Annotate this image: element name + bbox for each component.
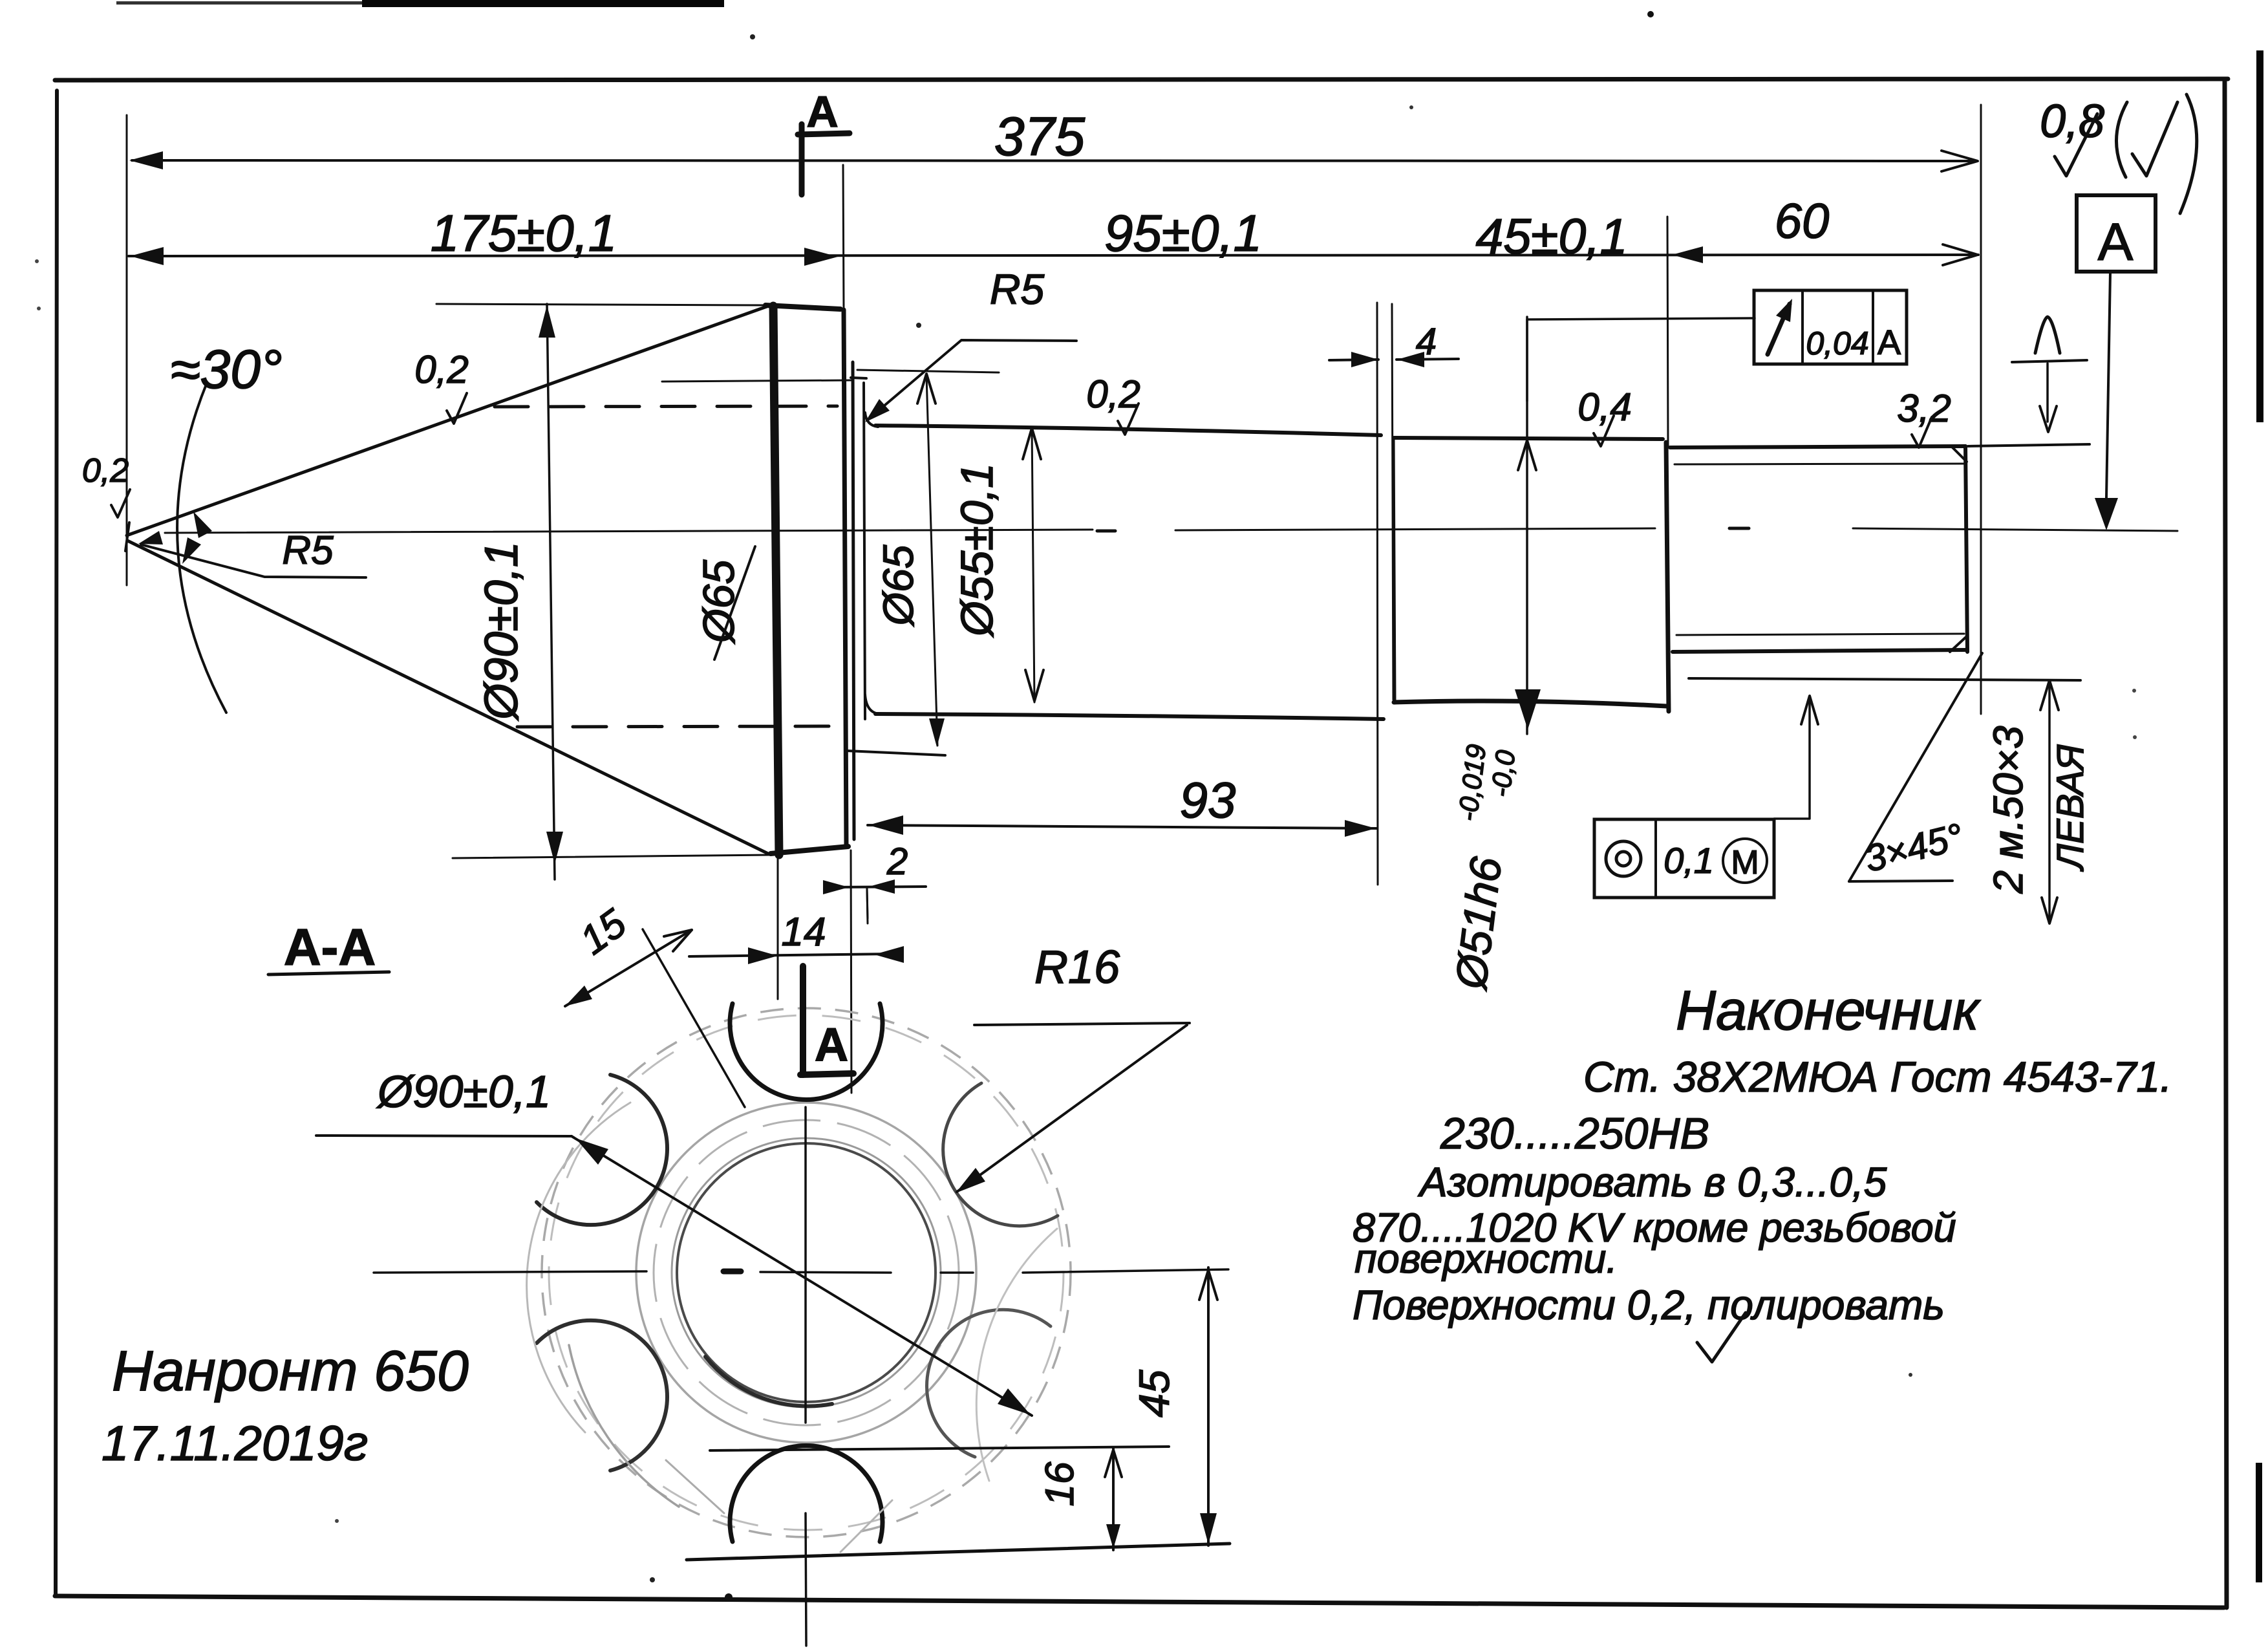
inner circle dark xyxy=(677,1143,936,1402)
pencil radial2 xyxy=(840,1500,892,1552)
runout symbol arrow xyxy=(1768,304,1790,354)
scan artifact top edge thin xyxy=(116,1,362,5)
flange top edge xyxy=(765,305,840,309)
drawing frame border top xyxy=(55,79,2228,80)
extension line flange left for 14 xyxy=(777,857,779,999)
svg-text:0,2: 0,2 xyxy=(414,348,468,391)
o51 relief groove line xyxy=(1392,304,1393,700)
dim o51 upper arrow xyxy=(1518,440,1536,470)
hidden line dashed upper xyxy=(495,406,837,407)
scan speck xyxy=(750,34,755,39)
AA dim o90 arrow lower xyxy=(998,1388,1031,1415)
dim o65 arrow down xyxy=(929,718,945,747)
dim 16 ref line xyxy=(710,1447,1169,1450)
AA bottom tangent line xyxy=(687,1544,1230,1560)
dim o90 arrow down xyxy=(546,832,563,864)
section mark A bottom line xyxy=(800,966,806,1075)
drawing frame border right xyxy=(2225,80,2227,1608)
roughness paren right xyxy=(2180,94,2197,213)
svg-text:45: 45 xyxy=(1130,1370,1178,1417)
dim 45AA arrow top xyxy=(1199,1270,1217,1300)
dim 375 right arrow xyxy=(1942,151,1978,171)
dim 45AA arrow bottom xyxy=(1200,1513,1217,1544)
datum frame box xyxy=(2077,195,2156,272)
AA horizontal centerline xyxy=(374,1271,647,1273)
outer circle o90 faint xyxy=(542,1008,1071,1537)
thread dim line xyxy=(2048,680,2051,923)
svg-text:поверхности.: поверхности. xyxy=(1354,1236,1618,1282)
thread dim arrow top xyxy=(2040,680,2059,710)
step bottom edge extension xyxy=(847,751,945,755)
svg-text:Нанронт 650: Нанронт 650 xyxy=(112,1339,469,1403)
R5 left leader xyxy=(141,544,366,577)
roughness 0,8 check xyxy=(2055,114,2097,176)
svg-text:ЛЕВАЯ: ЛЕВАЯ xyxy=(2049,744,2091,872)
pencil arc texture1 xyxy=(527,1103,630,1432)
chamfer underline xyxy=(1849,881,1952,881)
dim 15 extension xyxy=(643,929,745,1107)
svg-text:R16: R16 xyxy=(1034,942,1120,993)
notch lower-right R16 xyxy=(926,1309,1051,1457)
svg-text:2: 2 xyxy=(886,841,908,883)
step face line xyxy=(864,383,865,719)
dim o65 arrow up xyxy=(917,374,936,404)
svg-text:16: 16 xyxy=(1038,1461,1082,1506)
svg-text:0,4: 0,4 xyxy=(1578,385,1631,429)
right end extension line xyxy=(1980,105,1982,714)
hidden line dashed lower xyxy=(517,726,837,727)
cone bottom edge xyxy=(127,541,769,854)
notch top R16 xyxy=(730,1004,883,1099)
svg-text:95±0,1: 95±0,1 xyxy=(1104,204,1262,262)
thread end face xyxy=(1965,446,1967,652)
shaft o55 top edge xyxy=(875,426,1381,435)
extension line step face for 93 xyxy=(867,889,868,923)
svg-text:R5: R5 xyxy=(990,265,1045,313)
svg-text:14: 14 xyxy=(782,910,826,954)
pencil radial1 xyxy=(666,1460,724,1513)
outer circle o90 faint2 xyxy=(549,1015,1064,1530)
tolerance frame box xyxy=(1754,290,1907,364)
dim 93 left arrow xyxy=(868,815,903,835)
thread dim extension bottom xyxy=(1689,678,2081,680)
dim 14 arrow left xyxy=(874,946,904,963)
dim 14 arrow right xyxy=(748,947,778,964)
middle faint circle2 xyxy=(654,1120,959,1425)
dim chain line xyxy=(129,255,1978,256)
extension line for dim2 right xyxy=(867,889,868,918)
dim o51 line xyxy=(1526,317,1528,734)
tolerance frame divider1 xyxy=(1801,290,1804,364)
notch upper-right R16 xyxy=(943,1083,1058,1226)
svg-text:17.11.2019г: 17.11.2019г xyxy=(102,1416,368,1471)
thread chamfer bottom xyxy=(1950,636,1967,652)
concentricity divider xyxy=(1654,819,1657,898)
dim 60 left arrow xyxy=(1672,246,1703,263)
extension line for dim2 left xyxy=(851,850,851,1093)
dim 375 left arrow xyxy=(129,151,163,169)
step top edge xyxy=(851,378,866,378)
thread top extension xyxy=(1968,444,2090,446)
concentricity symbol xyxy=(1606,841,1641,876)
svg-text:Наконечник: Наконечник xyxy=(1676,980,1981,1042)
svg-text:45±0,1: 45±0,1 xyxy=(1476,209,1628,264)
concentricity M circle xyxy=(1723,839,1767,883)
dim o90 line xyxy=(547,304,555,879)
scan speck xyxy=(1909,1373,1912,1377)
pencil arc texture2 xyxy=(569,1345,679,1507)
o51 left extension line xyxy=(1377,303,1378,885)
notch lower-left R16 xyxy=(537,1320,667,1471)
dim 60 right arrow xyxy=(1943,244,1978,265)
tolerance frame divider2 xyxy=(1872,290,1874,364)
concentricity leader xyxy=(1774,700,1810,819)
angle arc arrow upper xyxy=(193,512,212,538)
extension line flange right face xyxy=(843,165,844,309)
datum triangle xyxy=(2095,498,2118,530)
svg-text:0,2: 0,2 xyxy=(82,452,129,490)
dim 14 line xyxy=(689,954,895,956)
scan artifact right edge bar lower xyxy=(2256,1463,2262,1582)
svg-text:175±0,1: 175±0,1 xyxy=(431,204,617,262)
svg-text:0,04: 0,04 xyxy=(1806,325,1868,361)
roughness check in paren xyxy=(2132,102,2177,176)
pencil arc texture3 xyxy=(976,1229,1057,1481)
extension line 45-60 boundary xyxy=(1667,217,1668,446)
AA vertical centerline xyxy=(804,1107,807,1423)
lambda arrow line xyxy=(2046,363,2049,422)
dim 4 line right xyxy=(1396,359,1459,360)
drawing frame border bottom xyxy=(55,1596,2224,1608)
roughness paren left xyxy=(2116,102,2127,177)
svg-text:Ø90±0,1: Ø90±0,1 xyxy=(476,541,528,721)
svg-text:M: M xyxy=(1731,844,1759,881)
scan speck xyxy=(1409,105,1413,109)
svg-text:Ст. 38Х2МЮА Гост 4543-71.: Ст. 38Х2МЮА Гост 4543-71. xyxy=(1583,1053,2172,1101)
dim 4 line left xyxy=(1329,360,1378,360)
fillet R5 top xyxy=(865,413,878,427)
o51 top edge xyxy=(1394,438,1663,439)
left extension line at apex xyxy=(126,115,128,585)
svg-text:A: A xyxy=(815,1019,848,1071)
thread bottom crest xyxy=(1673,650,1967,652)
dim o90 arrow up xyxy=(539,305,555,338)
svg-text:R5: R5 xyxy=(282,528,334,573)
svg-text:Поверхности 0,2, полировать: Поверхности 0,2, полировать xyxy=(1353,1282,1945,1328)
AA dim o90 leader underline xyxy=(316,1136,572,1136)
main axis centerline xyxy=(165,530,1093,533)
scan speck xyxy=(2132,689,2136,693)
svg-text:Азотировать в 0,3...0,5: Азотировать в 0,3...0,5 xyxy=(1417,1159,1887,1205)
dim o51 big arrow down xyxy=(1515,689,1541,729)
flange right face second line xyxy=(853,362,854,839)
svg-text:Ø90±0,1: Ø90±0,1 xyxy=(376,1066,551,1117)
scan speck xyxy=(335,1519,339,1523)
dim 15 arrow sw xyxy=(565,986,592,1006)
dim 375 line xyxy=(132,160,1977,161)
shaft o55 bottom edge xyxy=(875,714,1384,719)
dim o55 line xyxy=(1032,427,1034,702)
dim 2 line xyxy=(828,887,926,887)
svg-text:0,1: 0,1 xyxy=(1664,840,1714,881)
R5 top leader arrow xyxy=(865,399,890,422)
thread dim arrow bottom xyxy=(2042,898,2057,923)
cone top edge xyxy=(127,307,767,535)
dim 175 left arrow xyxy=(130,247,164,265)
svg-text:A: A xyxy=(1878,323,1901,362)
concentricity frame box xyxy=(1594,819,1774,898)
thread bottom root xyxy=(1676,634,1964,635)
scan speck xyxy=(35,259,39,263)
flange right face xyxy=(844,310,846,845)
section mark A top line xyxy=(798,133,850,135)
dim 175 right arrow xyxy=(804,248,838,266)
inner circle dark arc xyxy=(705,1357,832,1406)
dim 16 arrow top xyxy=(1105,1450,1122,1477)
scan speck xyxy=(1647,11,1654,17)
svg-text:93: 93 xyxy=(1180,771,1236,828)
svg-text:0,2: 0,2 xyxy=(1086,372,1140,416)
lambda mark xyxy=(2035,317,2060,353)
R5 top leader xyxy=(867,340,1076,420)
cone tip blunt xyxy=(125,523,129,551)
dim 16 arrow bottom xyxy=(1106,1524,1120,1549)
middle faint circle1 xyxy=(636,1103,976,1443)
chamfer leader diagonal xyxy=(1849,653,1982,881)
dim o90 extension top xyxy=(436,304,769,305)
R16 underline xyxy=(974,1023,1190,1025)
dim o65 line xyxy=(926,376,937,746)
drawing frame border left xyxy=(56,91,57,1596)
dim o55 arrow down xyxy=(1025,670,1043,701)
concentricity leader arrow xyxy=(1801,696,1818,724)
tolerance leader xyxy=(1527,318,1755,401)
lambda arrow head xyxy=(2040,406,2057,432)
inner circle echo xyxy=(672,1138,941,1407)
section label underline xyxy=(268,972,389,975)
scan speck xyxy=(725,1593,733,1601)
dim 93 right arrow xyxy=(1345,820,1376,837)
R16 leader arrow xyxy=(956,1168,985,1193)
svg-text:Ø55±0,1: Ø55±0,1 xyxy=(952,463,1002,638)
dim 2 arrow right xyxy=(823,880,849,894)
svg-text:2 м.50×3: 2 м.50×3 xyxy=(1985,726,2031,894)
dim o90 extension bottom xyxy=(453,855,771,858)
notch upper-left R16 xyxy=(537,1075,667,1225)
angle arc arrow lower xyxy=(182,537,201,564)
polish check xyxy=(1697,1313,1746,1362)
step top extension right xyxy=(857,370,999,372)
dim 45AA line xyxy=(1207,1267,1210,1546)
AA dim o90 arrow upper xyxy=(575,1138,608,1165)
thread top root xyxy=(1674,464,1963,464)
step top extension left xyxy=(662,380,851,382)
dim 15 line xyxy=(565,930,692,1006)
scan artifact right edge bar upper xyxy=(2256,50,2263,422)
svg-text:≈30°: ≈30° xyxy=(170,339,282,400)
scan speck xyxy=(650,1577,655,1582)
dim 4 arrow right xyxy=(1351,352,1378,367)
o51 right face xyxy=(1666,442,1669,711)
flange bottom edge xyxy=(771,846,848,854)
AA dim o90 diagonal xyxy=(572,1136,1032,1416)
thread top crest xyxy=(1670,446,1965,447)
o51 left face xyxy=(1393,438,1395,700)
R16 diagonal leader xyxy=(957,1025,1187,1192)
svg-text:60: 60 xyxy=(1775,194,1830,249)
angle dim arc xyxy=(177,383,226,713)
svg-text:А-А: А-А xyxy=(284,918,376,976)
dim 4 arrow left xyxy=(1397,352,1424,367)
tip roughness check xyxy=(111,490,130,517)
svg-text:Ø65: Ø65 xyxy=(874,544,922,627)
svg-text:A: A xyxy=(2098,213,2134,272)
fillet R5 bottom xyxy=(865,695,879,714)
lambda underline xyxy=(2012,360,2087,362)
dim 16 line xyxy=(1112,1449,1115,1550)
svg-text:3,2: 3,2 xyxy=(1897,387,1951,430)
scan speck xyxy=(37,307,41,310)
scan speck xyxy=(916,323,921,328)
svg-text:A: A xyxy=(806,87,838,136)
crossed o65 strike xyxy=(714,546,755,660)
datum stem xyxy=(2106,272,2110,498)
dim 2 arrow left xyxy=(869,879,895,894)
R5 left leader arrow xyxy=(138,531,163,544)
dim 93 line xyxy=(868,825,1377,828)
svg-text:375: 375 xyxy=(994,106,1085,167)
dim o55 arrow up xyxy=(1023,428,1041,459)
notch bottom R16 xyxy=(730,1446,883,1542)
scan artifact top edge bar xyxy=(362,0,724,7)
flange left face thick line xyxy=(773,306,779,855)
o51 bottom edge xyxy=(1394,701,1667,706)
scan speck xyxy=(2133,735,2137,739)
thread chamfer top xyxy=(1951,446,1967,462)
dim 15 arrow ne xyxy=(664,930,692,951)
svg-text:230.....250НВ: 230.....250НВ xyxy=(1440,1109,1709,1158)
